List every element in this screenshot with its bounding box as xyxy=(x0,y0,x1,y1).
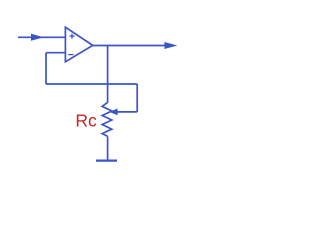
wire output xyxy=(93,45,166,47)
svg-text:Rc: Rc xyxy=(75,111,97,131)
wire wiper right vertical xyxy=(136,84,138,112)
wire output down to resistor (node A) xyxy=(107,46,109,103)
op-amp U1 xyxy=(65,27,92,62)
resistor Rc xyxy=(102,102,112,136)
wiper arrowhead into resistor xyxy=(109,109,117,116)
input arrowhead xyxy=(31,34,44,41)
ground xyxy=(96,160,117,162)
minus label (inverting pin) xyxy=(68,54,73,56)
plus label (non-inverting pin) xyxy=(70,34,75,39)
wire wiper bottom horizontal xyxy=(117,111,138,113)
wire inverting input xyxy=(46,52,65,54)
wire input to non-inverting input xyxy=(18,36,65,38)
wire feedback left vertical xyxy=(45,53,47,84)
wire feedback bottom horizontal xyxy=(46,83,137,85)
wire resistor to ground xyxy=(107,136,109,160)
output arrowhead xyxy=(164,42,177,49)
